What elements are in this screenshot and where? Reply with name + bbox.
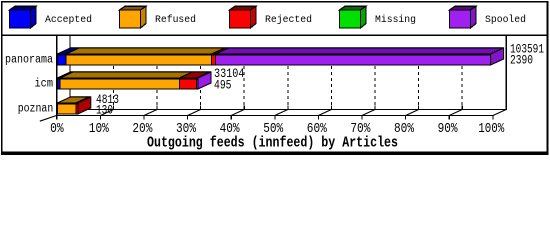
icm rejected (red) segment top face	[179, 72, 209, 78]
legend cube Spooled (purple)	[450, 6, 477, 28]
legend cube Missing (green)	[340, 6, 367, 28]
back bottom line	[69, 109, 507, 110]
icm spooled (purple) segment front	[197, 79, 198, 89]
back y-axis	[69, 35, 70, 110]
dashed grid lines 10%..90%	[113, 48, 462, 110]
icm spooled (purple) segment side face	[198, 72, 211, 89]
bar back-top edge lines	[70, 48, 503, 97]
icm refused (orange) segment top face	[60, 72, 192, 78]
svg-text:10%: 10%	[89, 121, 109, 137]
svg-text:495: 495	[214, 78, 232, 93]
svg-text:Refused: Refused	[155, 14, 196, 26]
icm spooled (purple) segment top face	[197, 72, 211, 78]
svg-text:Spooled: Spooled	[485, 14, 526, 26]
svg-text:2390: 2390	[510, 52, 533, 67]
legend cube Accepted (blue)	[10, 6, 37, 28]
svg-text:icm: icm	[35, 77, 54, 90]
bar row panorama	[57, 48, 503, 65]
poznan rejected (red) segment side face	[78, 97, 91, 114]
axis ticks: below-axis ticks, plane slants, back ticks	[100, 106, 492, 120]
origin depth extension diagonal	[40, 115, 57, 121]
svg-text:Accepted: Accepted	[45, 14, 92, 26]
svg-text:0%: 0%	[50, 121, 64, 137]
icm accepted (blue) segment front	[57, 79, 60, 89]
panorama refused (orange) segment top face	[66, 48, 225, 54]
legend cube Rejected (red)	[230, 6, 257, 28]
svg-text:Outgoing feeds (innfeed) by Ar: Outgoing feeds (innfeed) by Articles	[147, 134, 398, 151]
bar row poznan	[57, 97, 91, 114]
poznan refused (orange) segment front	[57, 104, 76, 114]
panorama spooled (purple) segment top face	[216, 48, 504, 54]
poznan rejected (red) segment front	[76, 104, 78, 114]
panorama rejected (red) segment top face	[212, 48, 229, 54]
panorama accepted (blue) segment top face	[57, 48, 79, 54]
svg-text:100%: 100%	[478, 121, 504, 137]
legend separator line	[1, 35, 547, 36]
svg-text:130: 130	[96, 103, 113, 118]
panorama spooled (purple) segment side face	[491, 48, 504, 65]
icm accepted (blue) segment top face	[57, 72, 73, 78]
front y-axis	[56, 35, 58, 120]
panorama rejected (red) segment front	[212, 55, 216, 65]
right frame 100% line	[506, 35, 508, 110]
icm rejected (red) segment front	[179, 79, 196, 89]
outer border	[1, 1, 549, 155]
icm refused (orange) segment front	[60, 79, 179, 89]
panorama spooled (purple) segment front	[216, 55, 491, 65]
poznan rejected (red) segment top face	[76, 97, 91, 103]
right end slant connector	[493, 110, 506, 116]
bar row icm	[57, 72, 211, 89]
svg-text:panorama: panorama	[5, 53, 53, 66]
svg-text:90%: 90%	[438, 121, 458, 137]
svg-text:Rejected: Rejected	[265, 14, 312, 26]
poznan refused (orange) segment top face	[57, 97, 89, 103]
svg-text:Missing: Missing	[375, 14, 416, 26]
bar front-top edge lines	[57, 55, 491, 104]
panorama accepted (blue) segment front	[57, 55, 66, 65]
svg-text:poznan: poznan	[18, 102, 54, 115]
legend cube Refused (orange)	[120, 6, 147, 28]
panorama refused (orange) segment front	[66, 55, 212, 65]
front bottom axis line	[56, 115, 494, 116]
